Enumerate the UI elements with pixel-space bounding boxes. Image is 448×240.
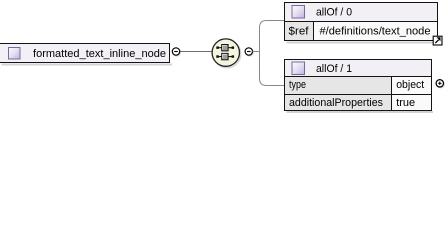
wire: toggle2 stub to branch bus bbox=[252, 51, 259, 53]
collapse toggle 1 (minus) bbox=[172, 48, 180, 56]
allOf glyph row 1 bbox=[216, 45, 234, 51]
box allOf/1 bbox=[285, 60, 432, 111]
box allOf/1 shadow bbox=[287, 111, 434, 113]
svg-text:true: true bbox=[396, 97, 415, 109]
svg-text:object: object bbox=[396, 79, 424, 91]
box allOf/0 bbox=[285, 3, 438, 41]
collapse toggle 2 (minus) bbox=[245, 48, 253, 56]
schema icon allOf/0 bbox=[292, 6, 305, 19]
svg-text:allOf / 1: allOf / 1 bbox=[316, 63, 352, 75]
wire: toggle1 to allOf compositor bbox=[180, 51, 212, 53]
expand toggle (plus) bbox=[436, 80, 444, 88]
svg-text:formatted_text_inline_node: formatted_text_inline_node bbox=[33, 48, 166, 60]
schema icon allOf/1 bbox=[292, 62, 305, 75]
schema node icon (left box) bbox=[9, 48, 21, 60]
allOf glyph row 2 bbox=[216, 53, 234, 59]
wire: branch bus to allOf/0 and allOf/1 bbox=[260, 21, 285, 86]
svg-text:type: type bbox=[289, 79, 306, 91]
link arrow icon bbox=[433, 36, 442, 45]
node box formatted_text_inline_node bbox=[0, 44, 170, 63]
svg-text:$ref: $ref bbox=[289, 26, 310, 38]
box allOf/0 shadow bbox=[287, 42, 439, 44]
svg-text:allOf / 0: allOf / 0 bbox=[316, 7, 352, 19]
node box formatted_text_inline_node shadow bbox=[2, 64, 173, 66]
svg-text:additionalProperties: additionalProperties bbox=[289, 97, 383, 109]
svg-text:#/definitions/text_node: #/definitions/text_node bbox=[320, 26, 431, 38]
allOf compositor circle bbox=[212, 39, 241, 68]
